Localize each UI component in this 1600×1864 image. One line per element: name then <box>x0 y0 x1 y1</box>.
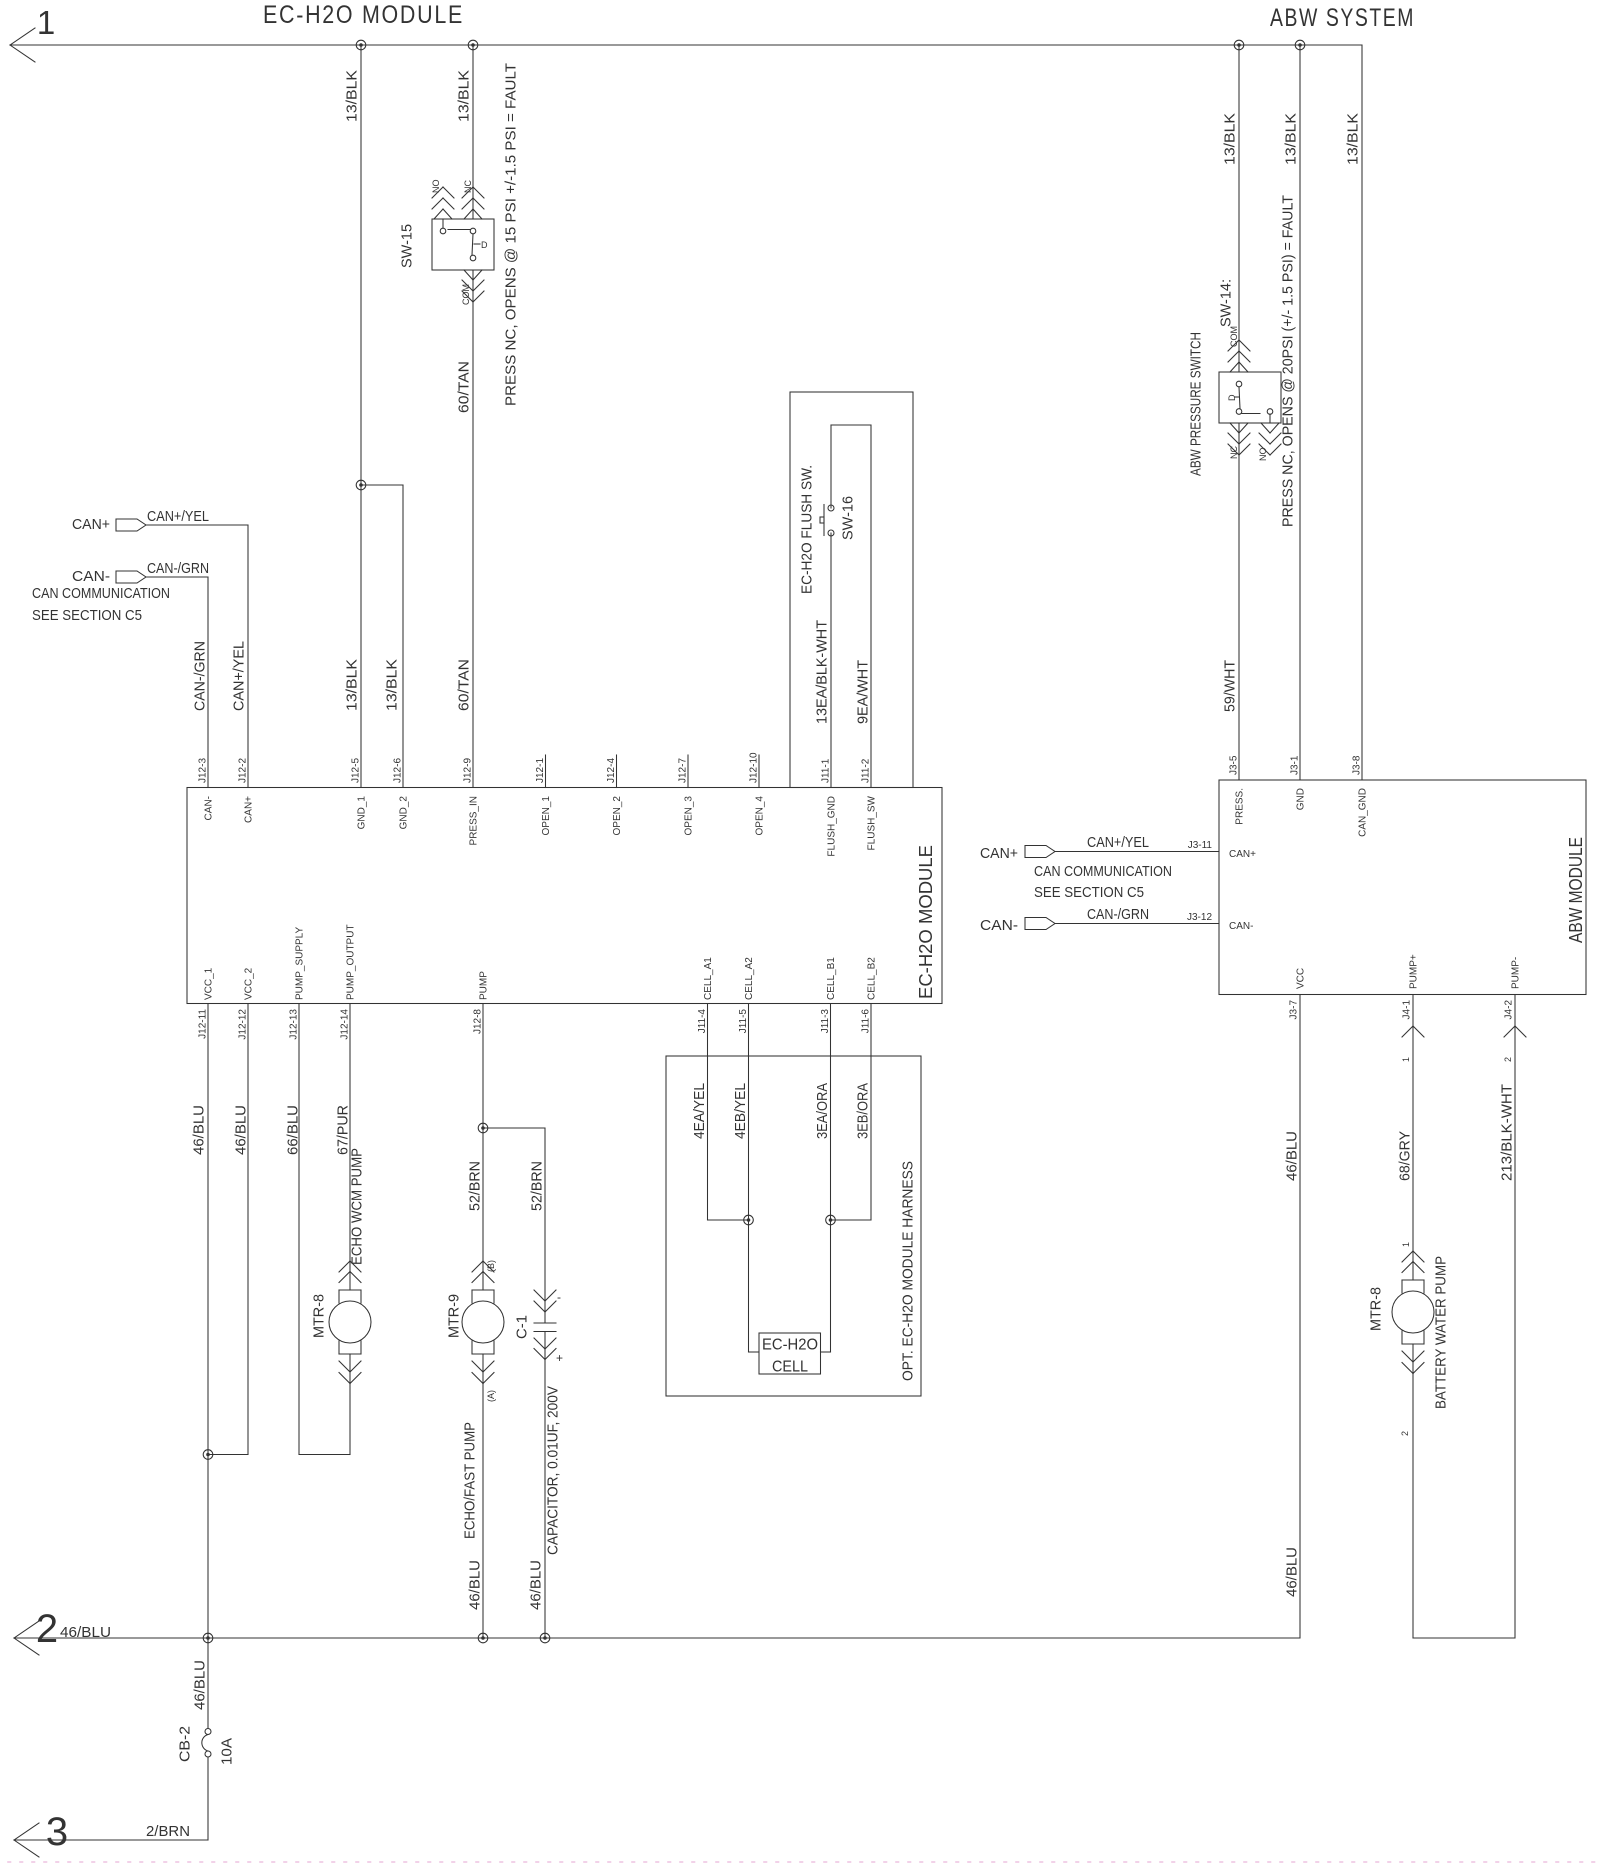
svg-text:FLUSH_SW: FLUSH_SW <box>867 795 878 850</box>
svg-text:CAN+: CAN+ <box>244 796 255 823</box>
svg-text:46/BLU: 46/BLU <box>192 1660 209 1710</box>
svg-text:NC: NC <box>463 180 473 193</box>
svg-text:COM: COM <box>1229 326 1239 347</box>
svg-text:EC-H2O MODULE: EC-H2O MODULE <box>263 1 464 29</box>
svg-text:CAN+: CAN+ <box>1229 849 1256 860</box>
svg-text:46/BLU: 46/BLU <box>233 1105 250 1155</box>
svg-text:PRESS.: PRESS. <box>1235 788 1246 825</box>
svg-text:PRESS NC, OPENS @ 20PSI (+/- 1: PRESS NC, OPENS @ 20PSI (+/- 1.5 PSI) = … <box>1280 195 1297 527</box>
svg-text:J11-5: J11-5 <box>738 1009 749 1034</box>
svg-text:J12-11: J12-11 <box>198 1009 209 1039</box>
svg-text:BATTERY WATER PUMP: BATTERY WATER PUMP <box>1433 1256 1450 1409</box>
svg-text:52/BRN: 52/BRN <box>529 1161 546 1211</box>
svg-text:GND_2: GND_2 <box>399 796 410 830</box>
svg-text:13/BLK: 13/BLK <box>344 70 361 122</box>
svg-text:MTR-8: MTR-8 <box>1368 1287 1385 1331</box>
svg-text:OPT. EC-H2O MODULE HARNESS: OPT. EC-H2O MODULE HARNESS <box>900 1161 917 1381</box>
svg-text:13EA/BLK-WHT: 13EA/BLK-WHT <box>814 620 831 724</box>
svg-text:67/PUR: 67/PUR <box>335 1105 352 1155</box>
svg-text:1: 1 <box>1401 1057 1411 1062</box>
svg-text:CAN+: CAN+ <box>980 845 1018 862</box>
svg-text:CAN-/GRN: CAN-/GRN <box>1087 906 1149 923</box>
svg-text:J3-11: J3-11 <box>1188 840 1213 851</box>
svg-text:ECHO WCM PUMP: ECHO WCM PUMP <box>349 1148 366 1265</box>
svg-text:SW-14:: SW-14: <box>1218 279 1235 327</box>
svg-text:J12-5: J12-5 <box>351 758 362 783</box>
svg-text:EC-H2O MODULE: EC-H2O MODULE <box>916 845 936 999</box>
svg-text:52/BRN: 52/BRN <box>467 1161 484 1211</box>
svg-text:13/BLK: 13/BLK <box>344 659 361 711</box>
svg-text:-: - <box>557 1290 561 1304</box>
svg-text:46/BLU: 46/BLU <box>1284 1547 1301 1597</box>
svg-text:J11-4: J11-4 <box>697 1009 708 1034</box>
svg-text:COM: COM <box>461 284 471 305</box>
svg-text:13/BLK: 13/BLK <box>1222 113 1239 165</box>
svg-text:NO: NO <box>431 180 441 194</box>
svg-text:J3-8: J3-8 <box>1352 755 1363 775</box>
svg-text:13/BLK: 13/BLK <box>456 70 473 122</box>
svg-text:PRESS NC, OPENS @ 15 PSI +/-1.: PRESS NC, OPENS @ 15 PSI +/-1.5 PSI = FA… <box>503 63 520 406</box>
svg-text:3EA/ORA: 3EA/ORA <box>814 1083 831 1139</box>
svg-text:J12-7: J12-7 <box>678 758 689 783</box>
svg-text:PUMP_SUPPLY: PUMP_SUPPLY <box>295 926 306 1000</box>
svg-text:VCC_1: VCC_1 <box>204 967 215 1000</box>
svg-text:VCC_2: VCC_2 <box>244 967 255 1000</box>
svg-text:J4-1: J4-1 <box>1402 1000 1413 1020</box>
svg-text:46/BLU: 46/BLU <box>1284 1131 1301 1181</box>
svg-text:CAN+: CAN+ <box>72 516 110 533</box>
svg-text:CELL_B1: CELL_B1 <box>826 957 837 1000</box>
svg-text:MTR-8: MTR-8 <box>311 1294 328 1338</box>
svg-text:CB-2: CB-2 <box>177 1726 194 1762</box>
svg-text:4EA/YEL: 4EA/YEL <box>691 1083 708 1139</box>
svg-text:66/BLU: 66/BLU <box>285 1105 302 1155</box>
svg-text:FLUSH_GND: FLUSH_GND <box>827 796 838 857</box>
svg-text:J11-3: J11-3 <box>820 1009 831 1034</box>
svg-text:2: 2 <box>1503 1057 1513 1062</box>
svg-text:CAN-/GRN: CAN-/GRN <box>147 560 209 577</box>
svg-text:3: 3 <box>46 1810 68 1854</box>
svg-text:2/BRN: 2/BRN <box>146 1823 190 1840</box>
svg-text:10A: 10A <box>219 1738 236 1765</box>
svg-text:ECHO/FAST PUMP: ECHO/FAST PUMP <box>462 1422 479 1539</box>
svg-text:CAN-: CAN- <box>980 917 1018 934</box>
svg-text:CELL_A1: CELL_A1 <box>703 957 714 1000</box>
svg-text:68/GRY: 68/GRY <box>1397 1131 1414 1181</box>
svg-text:13/BLK: 13/BLK <box>384 659 401 711</box>
svg-text:CAN-: CAN- <box>204 796 215 820</box>
svg-text:C-1: C-1 <box>514 1315 531 1339</box>
svg-text:SEE SECTION C5: SEE SECTION C5 <box>32 607 142 624</box>
svg-text:2: 2 <box>36 1607 58 1651</box>
svg-text:J12-6: J12-6 <box>393 758 404 783</box>
svg-text:J12-14: J12-14 <box>340 1009 351 1040</box>
svg-text:CAN-: CAN- <box>72 568 110 585</box>
svg-text:CAPACITOR, 0.01UF, 200V: CAPACITOR, 0.01UF, 200V <box>545 1386 562 1555</box>
svg-text:CAN+/YEL: CAN+/YEL <box>1087 834 1149 851</box>
svg-text:OPEN_4: OPEN_4 <box>755 796 766 836</box>
svg-text:60/TAN: 60/TAN <box>456 361 473 413</box>
svg-text:J12-4: J12-4 <box>606 758 617 783</box>
svg-text:PRESS_IN: PRESS_IN <box>469 796 480 845</box>
svg-text:J3-1: J3-1 <box>1290 755 1301 775</box>
svg-text:J12-10: J12-10 <box>749 752 760 783</box>
svg-text:CAN_GND: CAN_GND <box>1358 788 1369 837</box>
svg-text:J12-13: J12-13 <box>289 1009 300 1040</box>
svg-text:CAN+/YEL: CAN+/YEL <box>147 508 209 525</box>
svg-text:SEE SECTION C5: SEE SECTION C5 <box>1034 884 1144 901</box>
svg-text:2: 2 <box>1400 1431 1410 1436</box>
svg-text:13/BLK: 13/BLK <box>1283 113 1300 165</box>
svg-text:D: D <box>1227 394 1237 401</box>
svg-text:CELL_B2: CELL_B2 <box>867 957 878 1000</box>
svg-text:J11-1: J11-1 <box>821 758 832 783</box>
svg-text:213/BLK-WHT: 213/BLK-WHT <box>1499 1084 1516 1181</box>
svg-text:+: + <box>556 1351 563 1365</box>
svg-text:D: D <box>481 240 488 250</box>
svg-text:NO: NO <box>1258 448 1268 462</box>
svg-text:OPEN_2: OPEN_2 <box>612 796 623 836</box>
svg-text:3EB/ORA: 3EB/ORA <box>855 1083 872 1139</box>
svg-text:J11-6: J11-6 <box>861 1009 872 1034</box>
svg-text:PUMP: PUMP <box>479 971 490 1000</box>
svg-text:PUMP-: PUMP- <box>1511 957 1522 989</box>
svg-text:SW-15: SW-15 <box>399 224 416 268</box>
svg-text:CELL: CELL <box>772 1359 808 1376</box>
svg-text:OPEN_1: OPEN_1 <box>541 796 552 836</box>
svg-text:OPEN_3: OPEN_3 <box>684 796 695 836</box>
svg-text:VCC: VCC <box>1296 968 1307 989</box>
svg-text:46/BLU: 46/BLU <box>528 1560 545 1610</box>
svg-text:CAN COMMUNICATION: CAN COMMUNICATION <box>1034 863 1172 880</box>
svg-text:J3-5: J3-5 <box>1229 755 1240 775</box>
svg-text:J11-2: J11-2 <box>861 758 872 783</box>
svg-text:J12-12: J12-12 <box>238 1009 249 1040</box>
svg-text:MTR-9: MTR-9 <box>446 1294 463 1338</box>
svg-text:46/BLU: 46/BLU <box>60 1624 111 1641</box>
svg-text:59/WHT: 59/WHT <box>1222 660 1239 712</box>
svg-text:60/TAN: 60/TAN <box>456 659 473 711</box>
svg-text:CELL_A2: CELL_A2 <box>744 957 755 1000</box>
svg-text:ABW PRESSURE SWITCH: ABW PRESSURE SWITCH <box>1188 332 1205 476</box>
svg-text:ABW SYSTEM: ABW SYSTEM <box>1270 4 1415 32</box>
svg-text:46/BLU: 46/BLU <box>191 1105 208 1155</box>
svg-text:J3-12: J3-12 <box>1187 912 1212 923</box>
svg-text:(B): (B) <box>486 1260 496 1272</box>
svg-text:J4-2: J4-2 <box>1504 1000 1515 1020</box>
svg-text:GND_1: GND_1 <box>357 796 368 830</box>
svg-text:4EB/YEL: 4EB/YEL <box>732 1083 749 1139</box>
svg-text:J12-8: J12-8 <box>473 1009 484 1034</box>
svg-text:SW-16: SW-16 <box>840 496 857 540</box>
svg-text:1: 1 <box>1401 1242 1411 1247</box>
svg-text:13/BLK: 13/BLK <box>1345 113 1362 165</box>
svg-text:CAN-/GRN: CAN-/GRN <box>192 641 209 711</box>
svg-text:CAN-: CAN- <box>1229 921 1253 932</box>
svg-text:PUMP+: PUMP+ <box>1409 954 1420 989</box>
svg-text:EC-H2O: EC-H2O <box>762 1337 818 1354</box>
svg-text:GND: GND <box>1296 788 1307 810</box>
svg-text:NC: NC <box>1229 446 1239 459</box>
svg-text:J12-9: J12-9 <box>463 758 474 783</box>
svg-text:46/BLU: 46/BLU <box>467 1560 484 1610</box>
svg-text:9EA/WHT: 9EA/WHT <box>855 660 872 724</box>
svg-text:J12-2: J12-2 <box>238 758 249 783</box>
svg-text:J3-7: J3-7 <box>1289 1000 1300 1020</box>
svg-text:J12-3: J12-3 <box>198 758 209 783</box>
svg-text:1: 1 <box>37 4 55 41</box>
svg-text:ABW MODULE: ABW MODULE <box>1566 837 1586 943</box>
svg-text:PUMP_OUTPUT: PUMP_OUTPUT <box>346 924 357 1000</box>
svg-text:(A): (A) <box>486 1390 496 1402</box>
svg-text:J12-1: J12-1 <box>535 758 546 783</box>
svg-text:CAN+/YEL: CAN+/YEL <box>231 641 248 711</box>
svg-text:EC-H2O FLUSH SW.: EC-H2O FLUSH SW. <box>799 465 816 594</box>
svg-text:CAN COMMUNICATION: CAN COMMUNICATION <box>32 585 170 602</box>
